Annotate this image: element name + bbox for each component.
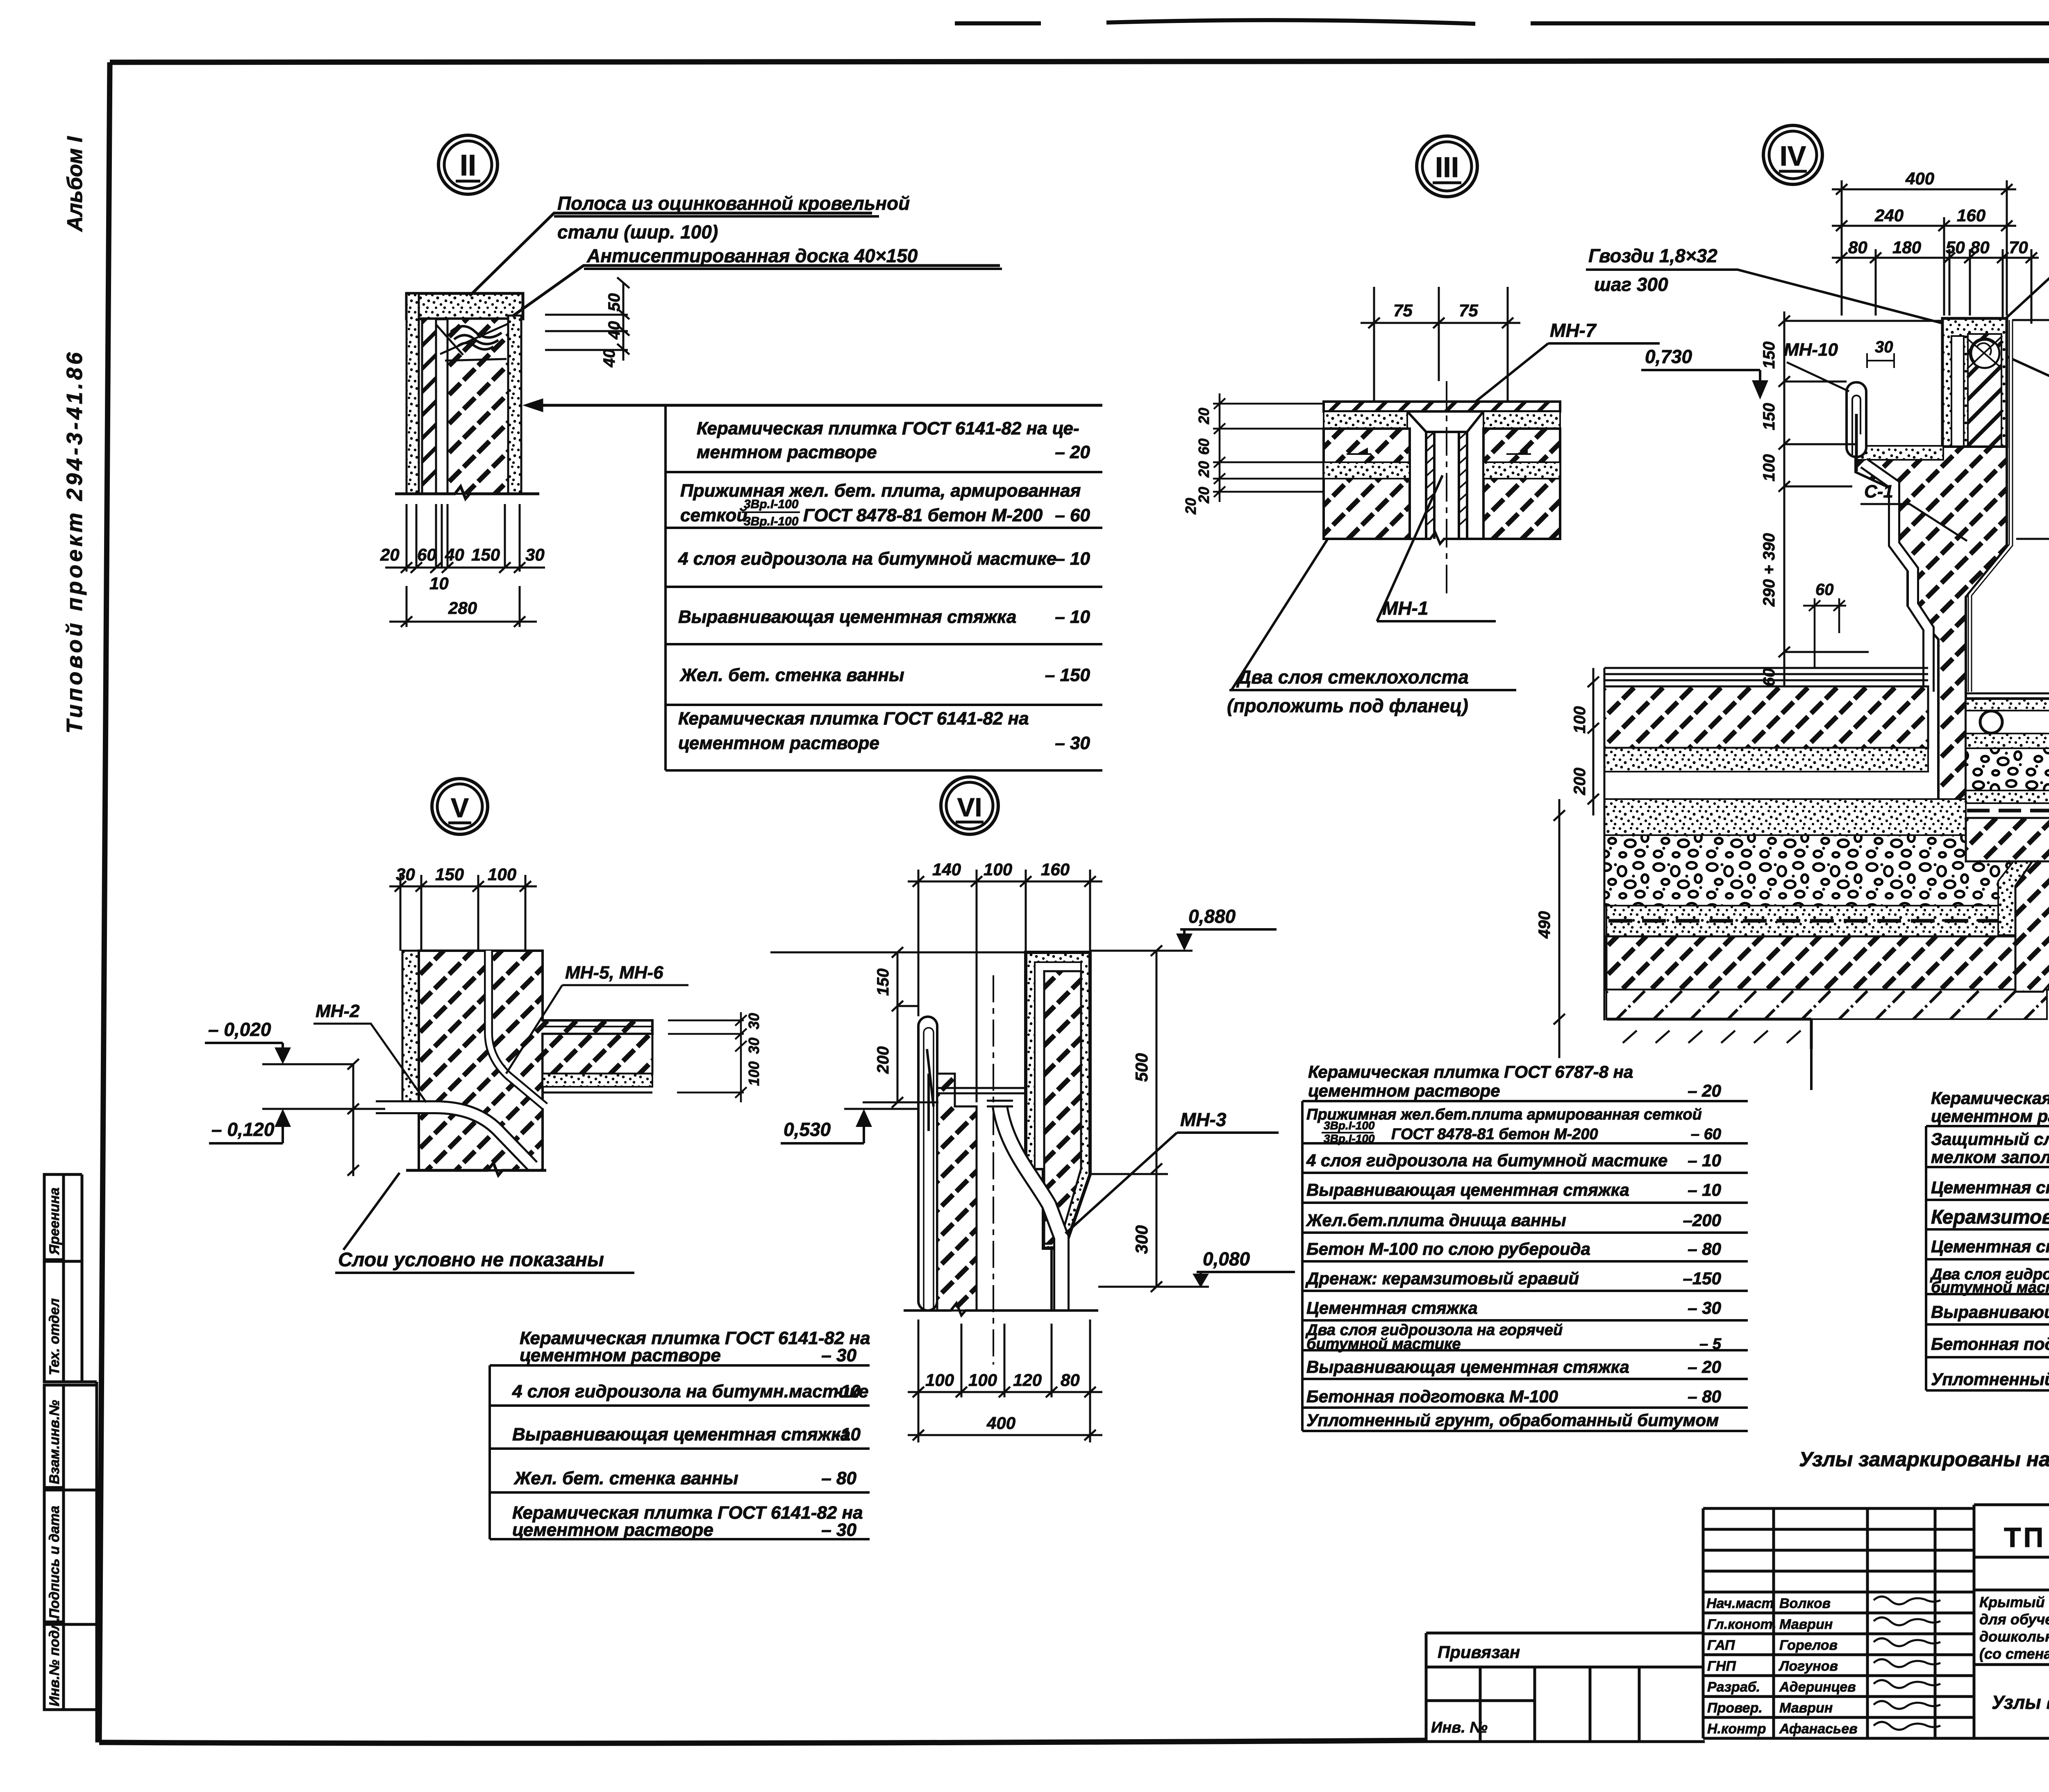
svg-text:– 10: – 10 xyxy=(1688,1180,1721,1199)
svg-text:Разраб.: Разраб. xyxy=(1707,1679,1760,1695)
stipple strips crossing blocks xyxy=(1324,462,1410,479)
hatch behind hook xyxy=(937,1074,977,1310)
svg-text:Узлы замаркированы на листе: Узлы замаркированы на листе 8 xyxy=(1799,1448,2049,1471)
svg-text:С-1: С-1 xyxy=(1864,482,1893,502)
svg-text:30: 30 xyxy=(745,1013,762,1029)
flange trapezoid xyxy=(1407,411,1483,432)
svg-text:290 + 390: 290 + 390 xyxy=(1760,533,1778,607)
left small dims xyxy=(1213,393,1324,502)
POOL FLOOR LEFT xyxy=(1604,668,2049,1049)
svg-text:Полоса из оцинкованной кровель: Полоса из оцинкованной кровельной xyxy=(557,193,910,214)
svg-text:180: 180 xyxy=(1892,238,1921,257)
svg-text:Типовой проект 294-3-41.86: Типовой проект 294-3-41.86 xyxy=(62,352,87,734)
svg-text:60: 60 xyxy=(417,545,436,564)
svg-text:Слои условно не показаны: Слои условно не показаны xyxy=(338,1249,604,1271)
svg-text:100: 100 xyxy=(745,1061,762,1086)
svg-text:Гл.конот.: Гл.конот. xyxy=(1707,1617,1776,1632)
svg-text:– 20: – 20 xyxy=(1688,1357,1721,1376)
WALL of IV xyxy=(1847,318,2011,836)
svg-text:Керамзитовый гравий: Керамзитовый гравий xyxy=(1931,1206,2049,1228)
svg-text:– 80: – 80 xyxy=(821,1468,856,1488)
svg-text:МН-2: МН-2 xyxy=(316,1001,360,1021)
svg-text:140: 140 xyxy=(932,860,961,879)
svg-text:Жел.бет.плита днища ванны: Жел.бет.плита днища ванны xyxy=(1306,1211,1566,1230)
svg-text:Защитный слой бетона М-150 на: Защитный слой бетона М-150 на xyxy=(1931,1129,2049,1149)
svg-text:Керамическая плитка ГОСТ 6787-: Керамическая плитка ГОСТ 6787-80 на xyxy=(1931,1088,2049,1108)
svg-text:Цементная стяжка: Цементная стяжка xyxy=(1931,1237,2049,1256)
paper top edge xyxy=(955,20,2049,24)
wall body hatched xyxy=(1856,447,2007,836)
dims right of section II (50 40 40) xyxy=(545,277,629,361)
bottom break xyxy=(904,1303,1098,1315)
svg-text:Логунов: Логунов xyxy=(1778,1658,1838,1674)
section III xyxy=(1324,381,1560,598)
liner МН-5/6 vertical carve xyxy=(488,951,545,1106)
svg-text:битумной мастике: битумной мастике xyxy=(1931,1279,2049,1296)
bottom break xyxy=(1324,532,1560,544)
svg-text:Цементная стяжка: Цементная стяжка xyxy=(1306,1298,1478,1317)
svg-text:Уплотненный грунт,обработанный: Уплотненный грунт,обработанный битумом xyxy=(1931,1370,2049,1389)
svg-text:битумной мастике: битумной мастике xyxy=(1306,1335,1461,1353)
left dim column IV xyxy=(1779,311,1942,700)
svg-text:Нач.маст: Нач.маст xyxy=(1706,1596,1774,1611)
svg-text:0,730: 0,730 xyxy=(1645,346,1692,367)
layers list VI xyxy=(1302,1101,1748,1431)
svg-text:Горелов: Горелов xyxy=(1779,1638,1838,1653)
svg-text:дошкольноео возраста: дошкольноео возраста xyxy=(1979,1628,2049,1645)
svg-text:Крытый бассейн с банной 3×7м: Крытый бассейн с банной 3×7м xyxy=(1979,1594,2049,1610)
svg-text:III: III xyxy=(1435,151,1459,183)
svg-text:150: 150 xyxy=(1760,403,1778,430)
svg-text:40: 40 xyxy=(445,545,464,564)
long arrow line to table xyxy=(527,400,1102,410)
svg-text:60: 60 xyxy=(1195,438,1212,455)
svg-text:100: 100 xyxy=(488,865,516,884)
main hatched wall xyxy=(419,951,652,1170)
svg-text:-10: -10 xyxy=(834,1381,861,1401)
top dims of IV xyxy=(1832,180,2039,324)
svg-text:– 0,120: – 0,120 xyxy=(211,1119,275,1140)
svg-text:– 30: – 30 xyxy=(1688,1298,1721,1317)
svg-text:3Вр.I-100: 3Вр.I-100 xyxy=(744,515,799,528)
svg-text:3Вр.I-100: 3Вр.I-100 xyxy=(744,497,799,511)
inner hatched wall mass xyxy=(422,319,436,494)
svg-text:V: V xyxy=(451,793,469,823)
svg-text:– 5: – 5 xyxy=(1699,1335,1722,1353)
svg-text:20: 20 xyxy=(1182,498,1199,515)
left stipple strip xyxy=(402,951,419,1102)
svg-text:Яреенина: Яреенина xyxy=(47,1188,62,1255)
svg-text:20: 20 xyxy=(1195,408,1212,425)
svg-text:400: 400 xyxy=(1905,169,1934,188)
node circle VI xyxy=(941,777,998,834)
node circle II xyxy=(438,135,497,194)
svg-text:– 30: – 30 xyxy=(821,1520,856,1540)
layers list IV xyxy=(1926,1126,2049,1390)
bottom break line xyxy=(395,486,539,499)
channel slot xyxy=(1951,336,1964,447)
svg-text:Выравнивающая цементная стяжка: Выравнивающая цементная стяжка xyxy=(678,607,1016,627)
svg-text:60: 60 xyxy=(1815,581,1834,599)
svg-text:Жел. бет. стенка ванны: Жел. бет. стенка ванны xyxy=(679,665,904,685)
svg-text:ГНП: ГНП xyxy=(1707,1658,1736,1674)
svg-text:– 80: – 80 xyxy=(1688,1239,1721,1258)
svg-text:280: 280 xyxy=(448,598,477,618)
svg-text:ГАП: ГАП xyxy=(1707,1638,1736,1653)
svg-text:ТП 294-3-41.86: ТП 294-3-41.86 xyxy=(2004,1522,2049,1553)
svg-text:400: 400 xyxy=(986,1413,1015,1433)
svg-text:Альбом I: Альбом I xyxy=(63,136,87,232)
rolled steel strip coil at top xyxy=(451,326,502,350)
svg-text:100: 100 xyxy=(925,1370,954,1390)
step stipple strip xyxy=(1998,837,2049,935)
svg-text:Афанасьев: Афанасьев xyxy=(1779,1721,1858,1737)
svg-text:Керамическая плитка ГОСТ 6141: Керамическая плитка ГОСТ 6141-82 на xyxy=(678,709,1029,729)
svg-text:0,880: 0,880 xyxy=(1188,906,1236,927)
wall section II xyxy=(395,293,539,499)
svg-text:– 60: – 60 xyxy=(1691,1126,1721,1143)
svg-text:МН-5, МН-6: МН-5, МН-6 xyxy=(565,963,663,983)
svg-text:30: 30 xyxy=(525,545,545,564)
svg-text:цементном растворе: цементном растворе xyxy=(520,1345,721,1365)
svg-text:4 слоя гидроизола на битумной: 4 слоя гидроизола на битумной мастике xyxy=(1306,1151,1667,1170)
svg-text:для обучения плаванию детей: для обучения плаванию детей xyxy=(1979,1611,2049,1628)
svg-text:Бетонная подготовка М-100: Бетонная подготовка М-100 xyxy=(1306,1387,1558,1406)
svg-text:100: 100 xyxy=(984,860,1012,879)
svg-text:МН-3: МН-3 xyxy=(1180,1109,1227,1130)
svg-text:40: 40 xyxy=(605,321,623,340)
svg-text:(проложить под фланец): (проложить под фланец) xyxy=(1227,695,1468,716)
floor slab right xyxy=(543,1020,652,1034)
svg-text:50: 50 xyxy=(1946,238,1965,257)
svg-text:– 80: – 80 xyxy=(1688,1387,1721,1406)
svg-text:75: 75 xyxy=(1459,301,1478,320)
svg-text:10: 10 xyxy=(429,574,449,593)
svg-text:Волков: Волков xyxy=(1779,1596,1831,1611)
svg-text:4 слоя гидроизола на битумной: 4 слоя гидроизола на битумной мастике xyxy=(678,549,1056,569)
section VI xyxy=(904,952,1098,1365)
ledge stipple band xyxy=(1856,446,1943,460)
bottom dims 100 100 120 80 / 400 xyxy=(908,1320,1102,1442)
layers list II xyxy=(666,405,1102,770)
МН-10 upstand xyxy=(1847,382,1866,457)
svg-text:– 10: – 10 xyxy=(1055,607,1090,627)
liner right face xyxy=(1970,320,2011,692)
reference verticals to tables xyxy=(1811,861,2049,1090)
svg-text:– 30: – 30 xyxy=(821,1345,856,1365)
svg-text:-10: -10 xyxy=(834,1424,861,1445)
inner hatch of parapet xyxy=(1968,334,2001,447)
svg-text:100: 100 xyxy=(1760,454,1778,482)
svg-text:30: 30 xyxy=(745,1038,762,1054)
node circle III xyxy=(1417,136,1477,197)
svg-text:Тех. отдел: Тех. отдел xyxy=(47,1298,62,1375)
svg-text:VI: VI xyxy=(957,793,982,822)
svg-text:– 60: – 60 xyxy=(1055,505,1090,525)
svg-text:150: 150 xyxy=(435,865,464,884)
svg-text:160: 160 xyxy=(1957,206,1985,225)
funnel drain carve xyxy=(1000,1106,1061,1310)
shelf lines xyxy=(937,1088,1026,1093)
svg-text:200: 200 xyxy=(874,1046,892,1074)
svg-text:Жел. бет. стенка ванны: Жел. бет. стенка ванны xyxy=(513,1468,738,1488)
svg-text:20: 20 xyxy=(380,545,400,564)
svg-text:Выравнивающая цементная стяжка: Выравнивающая цементная стяжка xyxy=(512,1424,850,1445)
svg-text:Антисептированная доска 40×150: Антисептированная доска 40×150 xyxy=(586,245,918,266)
svg-text:Взам.инв.№: Взам.инв.№ xyxy=(47,1400,62,1484)
svg-text:150: 150 xyxy=(874,968,892,996)
top dims VI: 140 100 160 xyxy=(908,870,1102,1102)
svg-text:Подпись и дата: Подпись и дата xyxy=(47,1506,62,1619)
svg-text:100: 100 xyxy=(1571,706,1589,734)
svg-text:4 слоя гидроизола на битумн.ма: 4 слоя гидроизола на битумн.мастике xyxy=(512,1381,868,1401)
svg-text:Инв. №: Инв. № xyxy=(1431,1719,1488,1736)
axis line xyxy=(1446,381,1447,598)
node circle IV xyxy=(1763,125,1822,184)
svg-text:–200: –200 xyxy=(1683,1211,1721,1230)
dim 75 75 xyxy=(1361,287,1520,410)
top dims V: 30 150 100 xyxy=(389,875,537,951)
svg-text:Бетонная подготовка М-100: Бетонная подготовка М-100 xyxy=(1931,1334,2049,1354)
svg-text:цементном растворе: цементном растворе xyxy=(1308,1081,1500,1100)
svg-text:IV: IV xyxy=(1780,141,1806,172)
svg-text:3Вр.I-100: 3Вр.I-100 xyxy=(1324,1119,1375,1132)
svg-text:– 150: – 150 xyxy=(1045,665,1090,685)
svg-text:Выравнивающая цементная стяжка: Выравнивающая цементная стяжка xyxy=(1931,1302,2049,1322)
svg-text:60: 60 xyxy=(1760,668,1778,687)
pipe walls xyxy=(1426,432,1467,539)
svg-text:Инв.№ подл.: Инв.№ подл. xyxy=(47,1617,62,1706)
svg-text:цементном растворе: цементном растворе xyxy=(512,1520,713,1540)
svg-text:цементном растворе: цементном растворе xyxy=(1931,1106,2049,1126)
svg-text:Гвозди 1,8×32: Гвозди 1,8×32 xyxy=(1588,245,1717,266)
svg-text:–150: –150 xyxy=(1683,1269,1721,1288)
border frame xyxy=(110,60,2049,62)
svg-text:МН-10: МН-10 xyxy=(1784,340,1838,360)
liner pool side carve xyxy=(1864,463,1929,692)
svg-text:120: 120 xyxy=(1013,1370,1042,1390)
right dim column IV xyxy=(2016,300,2049,698)
wooden brus xyxy=(1970,338,1999,368)
svg-text:– 10: – 10 xyxy=(1688,1151,1721,1170)
svg-text:– 20: – 20 xyxy=(1688,1081,1721,1100)
right small dims 30 30 100 xyxy=(668,1012,747,1102)
svg-text:3Вр.I-100: 3Вр.I-100 xyxy=(1324,1132,1375,1145)
left margin stamp boxes xyxy=(44,1174,97,1742)
svg-text:цементном растворе: цементном растворе xyxy=(678,733,879,753)
rim stipple frame xyxy=(1026,952,1090,1248)
pool left dims xyxy=(1554,668,1599,1058)
drain pipe white xyxy=(1052,1246,1064,1310)
top slab with hatch xyxy=(1324,402,1560,411)
svg-text:20: 20 xyxy=(1195,461,1212,478)
svg-text:ГОСТ 8478-81 бетон М-200: ГОСТ 8478-81 бетон М-200 xyxy=(1391,1126,1598,1143)
svg-text:40: 40 xyxy=(600,349,618,368)
svg-text:ментном растворе: ментном растворе xyxy=(697,442,877,462)
svg-text:ГОСТ 8478-81 бетон М-200: ГОСТ 8478-81 бетон М-200 xyxy=(803,505,1043,525)
svg-text:Выравнивающая цементная стяжка: Выравнивающая цементная стяжка xyxy=(1306,1180,1629,1199)
svg-text:Маврин: Маврин xyxy=(1779,1617,1833,1632)
stipple band under slab xyxy=(1324,411,1407,429)
svg-text:30: 30 xyxy=(396,865,415,884)
node circle V xyxy=(432,779,488,834)
svg-text:240: 240 xyxy=(1874,206,1904,225)
svg-text:стали (шир. 100): стали (шир. 100) xyxy=(557,221,718,243)
svg-text:II: II xyxy=(460,149,476,182)
svg-text:Узлы ванны II , III , IV , V: Узлы ванны II , III , IV , V , VI xyxy=(1992,1692,2049,1713)
svg-text:Провер.: Провер. xyxy=(1707,1700,1763,1716)
svg-text:80: 80 xyxy=(1970,238,1990,257)
ground under walkway xyxy=(2015,837,2049,992)
svg-text:Адеринцев: Адеринцев xyxy=(1779,1679,1856,1695)
outer stipple liner (left strip + top band + right strip) xyxy=(407,293,523,319)
left hook liner xyxy=(918,1017,937,1310)
svg-text:100: 100 xyxy=(968,1370,997,1390)
svg-text:80: 80 xyxy=(1061,1370,1080,1390)
svg-text:– 20: – 20 xyxy=(1055,442,1090,462)
parapet stipple xyxy=(1942,318,2007,447)
svg-text:490: 490 xyxy=(1536,911,1554,939)
left dims of VI xyxy=(770,947,1026,1108)
svg-text:Цементная стяжка по слою рубер: Цементная стяжка по слою рубероида xyxy=(1931,1178,2049,1197)
svg-text:МН-7: МН-7 xyxy=(1550,320,1597,341)
section V xyxy=(376,951,652,1175)
svg-text:0,080: 0,080 xyxy=(1203,1248,1250,1270)
svg-text:– 10: – 10 xyxy=(1055,549,1090,569)
svg-text:Дренаж: керамзитовый гравий: Дренаж: керамзитовый гравий xyxy=(1305,1269,1579,1288)
svg-text:75: 75 xyxy=(1393,301,1413,320)
svg-text:Бетон М-100 по слою рубероида: Бетон М-100 по слою рубероида xyxy=(1306,1239,1590,1258)
svg-text:Прижимная жел. бет. плита, арм: Прижимная жел. бет. плита, армированная xyxy=(680,481,1081,501)
svg-text:сеткой: сеткой xyxy=(680,505,747,525)
svg-text:500: 500 xyxy=(1132,1053,1151,1082)
svg-text:Выравнивающая цементная стяжка: Выравнивающая цементная стяжка xyxy=(1306,1357,1629,1376)
svg-text:Маврин: Маврин xyxy=(1779,1700,1833,1716)
title block grid xyxy=(1426,1505,2049,1742)
layers list V xyxy=(490,1365,870,1539)
bottom break xyxy=(406,1163,546,1175)
svg-text:Керамическая плитка ГОСТ 6141: Керамическая плитка ГОСТ 6141-82 на це- xyxy=(697,418,1079,438)
svg-text:Привязан: Привязан xyxy=(1438,1642,1520,1662)
leader to label: полоса xyxy=(470,213,872,296)
svg-text:Н.контр: Н.контр xyxy=(1707,1721,1766,1737)
svg-text:80: 80 xyxy=(1848,238,1867,257)
svg-text:– 30: – 30 xyxy=(1055,733,1090,753)
svg-text:200: 200 xyxy=(1571,768,1589,795)
svg-text:160: 160 xyxy=(1041,860,1070,879)
axis xyxy=(993,975,994,1365)
svg-text:– 0,020: – 0,020 xyxy=(208,1019,271,1040)
svg-text:0,530: 0,530 xyxy=(784,1119,831,1140)
svg-text:Два слоя стеклохолста: Два слоя стеклохолста xyxy=(1236,666,1469,688)
liner МН-2 carve xyxy=(376,1107,533,1166)
right hatched block xyxy=(1483,429,1560,539)
svg-text:МН-1: МН-1 xyxy=(1382,597,1428,619)
left vertical ref xyxy=(348,1059,359,1176)
rim inner hatch xyxy=(1044,971,1081,1244)
svg-text:шаг 300: шаг 300 xyxy=(1594,274,1668,295)
svg-text:Уплотненный грунт, обработанны: Уплотненный грунт, обработанный битумом xyxy=(1306,1410,1719,1430)
svg-text:(со стенами из кирпича): (со стенами из кирпича) xyxy=(1979,1645,2049,1662)
svg-text:150: 150 xyxy=(471,545,500,564)
WALKWAY FLOOR RIGHT xyxy=(1966,693,2049,887)
svg-text:Керамическая плитка ГОСТ 6787: Керамическая плитка ГОСТ 6787-8 на xyxy=(1308,1062,1633,1081)
right dim col 500/300 xyxy=(1090,945,1168,1292)
svg-text:мелком заполнителе: мелком заполнителе xyxy=(1931,1147,2049,1167)
svg-text:50: 50 xyxy=(605,293,623,312)
bottom dimension extensions xyxy=(385,504,545,627)
svg-text:70: 70 xyxy=(2009,238,2028,257)
left hatched block xyxy=(1324,429,1410,539)
svg-text:30: 30 xyxy=(1875,338,1893,356)
svg-text:150: 150 xyxy=(1760,341,1778,369)
svg-text:300: 300 xyxy=(1132,1225,1151,1254)
